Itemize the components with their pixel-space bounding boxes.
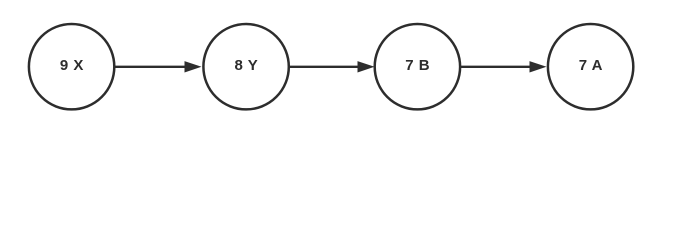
node 9 X (29, 24, 114, 109)
node 8 Y (203, 24, 288, 109)
svg-text:7 B: 7 B (405, 57, 430, 74)
node 7 B (375, 24, 460, 109)
wire arrow 1 (115, 61, 202, 72)
wire arrow 3 (461, 61, 547, 72)
svg-text:7 A: 7 A (579, 57, 603, 74)
node 7 A (548, 24, 633, 109)
svg-text:8 Y: 8 Y (234, 57, 257, 74)
wire arrow 2 (289, 61, 375, 72)
svg-text:9 X: 9 X (60, 57, 84, 74)
